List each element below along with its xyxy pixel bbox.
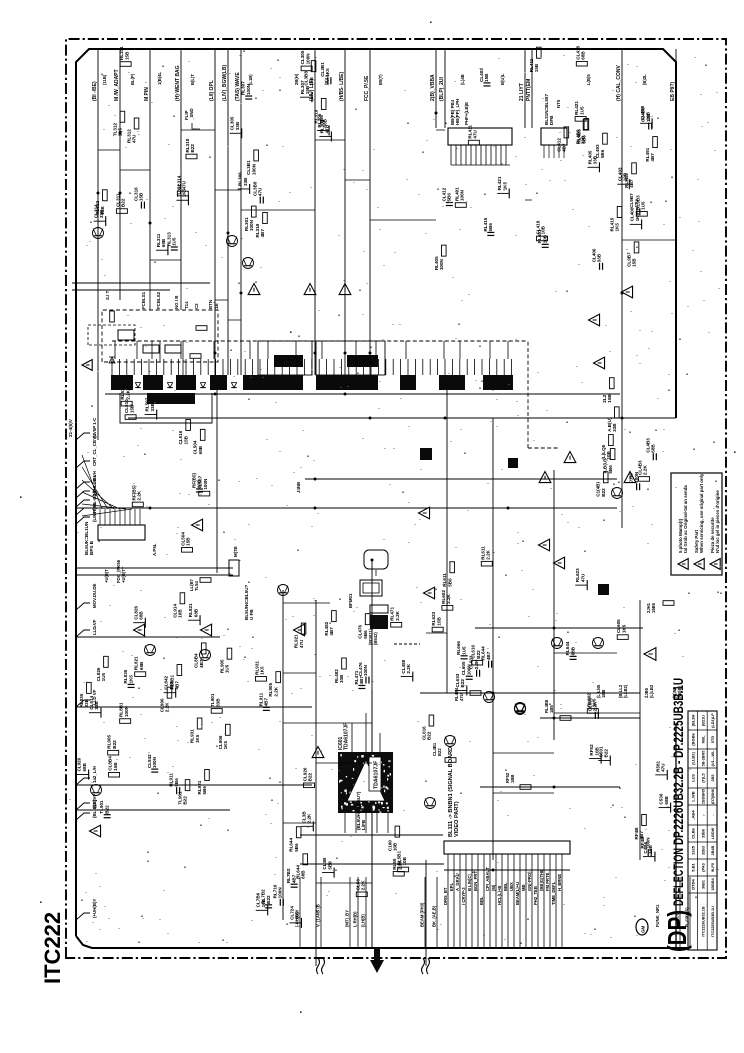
svg-text:2B4B: 2B4B [711,845,715,855]
connector black bar 4 [210,375,227,390]
module IC body 3 [165,345,181,353]
svg-text:4B7: 4B7 [562,143,567,152]
safety triangle mark 18 [539,539,550,551]
resistor RL611 [481,561,492,566]
svg-text:68B: 68B [581,51,586,60]
connector black bar 9 [483,375,513,390]
wire p-x283 drop [282,590,284,920]
safety notes box [671,473,722,575]
svg-text:NBL: NBL [701,735,705,743]
safety note triangle 3 [710,559,720,570]
connector black bar 2 [143,375,163,390]
resistor RL405 [441,245,446,256]
resistor RF4B [642,814,647,825]
svg-text:TDA6107JF: TDA6107JF [344,723,350,750]
part CL403 [617,183,629,185]
svg-text:(L)4B: (L)4B [460,74,465,85]
svg-text:GM: GM [641,925,646,933]
svg-text:10B: 10B [541,225,546,234]
capacitor RL7B2 [291,886,298,888]
wire net M /W_ADAPT [119,49,121,300]
safety note triangle 2 [694,559,704,570]
svg-text:(BLP)_2UI: (BLP)_2UI [439,76,445,101]
svg-text:DTD4: DTD4 [691,879,696,890]
diode D2 in bar row [167,383,172,388]
svg-text:100N: 100N [363,664,368,676]
part CL7B6 [256,909,268,911]
resistor C160 [395,826,400,837]
part RL311 [156,249,168,251]
connector BL31N body [541,128,567,145]
svg-text:4B7: 4B7 [264,697,269,706]
safety triangle mark 6 [201,624,212,636]
connector BB(PB) body [448,128,512,145]
part RL301 [319,135,331,137]
resistor RL318 [186,154,197,159]
svg-text:4B7: 4B7 [291,874,296,883]
resistor RF(B5) [132,502,143,507]
svg-text:LBDW: LBDW [711,827,715,839]
transistor Q2 [593,638,604,649]
IC U601 part label box [369,757,381,791]
wire p-y637 [76,636,220,638]
safety triangle mark 14 [90,825,101,837]
svg-text:H_BRNE: H_BRNE [557,874,562,891]
border stub (LE)VF [76,803,90,810]
svg-text:1U5: 1U5 [225,664,230,673]
svg-text:1U5: 1U5 [641,201,646,210]
svg-text:BL(P): BL(P) [130,73,135,85]
svg-text:(11B): (11B) [102,74,107,85]
svg-text:M(7B: M(7B [233,546,238,557]
connector BL111 pin lines [447,854,449,947]
svg-text:BK_(AE,B): BK_(AE,B) [432,905,437,927]
svg-text:MOV.DU.DE: MOV.DU.DE [92,583,97,608]
resistor RL415 [617,206,622,217]
svg-text:68B: 68B [82,762,87,771]
svg-text:(L/I) OPL: (L/I) OPL [209,80,215,101]
svg-text:1BBB4: 1BBB4 [711,877,715,890]
resistor CL914 [180,593,185,604]
capacitor CL412 [446,205,453,207]
svg-text:15B: 15B [648,844,653,853]
resistor RL4B5 [584,119,589,130]
resistor RL491 [653,137,658,148]
resistor RL921 [301,623,306,634]
resistor RL319 [321,98,326,109]
inline resistor row bottom-right [470,691,481,696]
connector black bar 7 [400,375,416,390]
svg-text:100N: 100N [251,163,256,175]
svg-text:1K5: 1K5 [502,182,507,191]
svg-text:,AB4: ,AB4 [691,810,696,820]
svg-text:33B: 33B [84,698,89,707]
capacitor CL842 [151,771,158,773]
bus wire p-x372 long drop [371,560,373,948]
connector black bar 6 [316,375,378,390]
wire net (H) WENT BAG [180,49,182,282]
border stub P/BN [76,508,90,515]
svg-text:68B: 68B [664,795,669,804]
part RL307 [300,96,312,98]
svg-text:10B: 10B [542,234,547,243]
safety triangle mark 17 [594,357,605,369]
driver BFM01 box [360,580,382,596]
svg-text:9LP5: 9LP5 [711,863,715,872]
svg-text:1B5: 1B5 [549,705,554,713]
capacitor CL476 [365,677,367,684]
svg-text:(BGB6: (BGB6 [691,733,696,746]
resistor RL8B1 [177,665,182,676]
svg-text:(D7)BN6: (D7)BN6 [711,789,715,804]
IC U601 pin wires [344,813,346,833]
svg-text:(M): (M) [491,884,496,891]
svg-text:1K5: 1K5 [182,188,187,197]
svg-text:EB P9?): EB P9?) [670,81,676,101]
svg-text:FCC_P/.5E: FCC_P/.5E [364,75,370,101]
part RF52 [589,758,601,760]
part CL842 [164,692,176,694]
svg-text:10B: 10B [339,674,344,683]
transistor QB1 [515,704,526,715]
svg-text:HB(PP)_LPH: HB(PP)_LPH [455,99,460,125]
svg-text:DP.2226UB32.2B - DP.2225UB3B.1: DP.2226UB32.2B - DP.2225UB3B.1U [671,678,686,845]
wire p-x316 drop [315,600,317,966]
capacitor RL313 [171,249,178,251]
svg-text:1a2_L/H: 1a2_L/H [92,766,97,783]
svg-text:68B: 68B [139,611,144,620]
svg-text:5B6: 5B6 [294,843,299,852]
svg-text:100N: 100N [305,53,310,65]
svg-text:100N: 100N [277,887,282,899]
resistor RL421 [575,117,586,122]
svg-text:MB: MB [521,884,526,891]
svg-text:33B: 33B [243,177,248,186]
capacitor CL4B3 [652,453,654,460]
svg-text:UBX: UBX [509,882,514,891]
resistor RL5B1 [398,867,409,872]
svg-text:DFB: DFB [549,115,554,125]
small scan speckles [300,1011,302,1013]
border stub (LIMIT)+ [76,517,90,524]
svg-text:5B6: 5B6 [488,223,493,232]
squiggle symbol 1 [317,958,325,974]
svg-text:4B7: 4B7 [629,179,634,188]
svg-text:15B: 15B [186,537,191,546]
svg-text:FUNK_NR1: FUNK_NR1 [655,904,660,927]
resistor RL835 [87,682,92,693]
safety triangle mark 2 [304,284,316,295]
border stub 2(P K-/-BL [76,491,90,498]
part RL306 [238,188,250,190]
transistor Q6 [243,258,254,269]
part CL3B [301,825,313,827]
amplifier triangle mid-right [644,648,656,661]
svg-text:BEAM(L)+U: BEAM(L)+U [515,882,520,905]
module diode [109,357,115,363]
resistor CL3B8 [311,61,316,72]
resistor RL9B3 [632,163,637,174]
svg-text:5B6: 5B6 [582,135,587,144]
connector black bar 8 [439,375,465,390]
svg-text:(H) WENT BAG: (H) WENT BAG [175,65,181,101]
connector black bar 1 [111,375,133,390]
resistor CL926 [303,783,314,788]
svg-text:5B6: 5B6 [327,861,332,870]
stub feed wires [82,455,132,516]
bus wire p-y418 [128,417,676,419]
svg-text:47U: 47U [473,129,478,138]
module rail p-y283 [72,282,210,284]
resistor CL510 [125,415,136,420]
svg-text:(LD1)LP: (LD1)LP [711,713,715,728]
svg-text:B22: B22 [121,198,126,207]
svg-text:LLD VF: LLD VF [92,619,97,635]
resistor RL9B3 [636,212,647,217]
safety triangle mark 5 [134,624,145,636]
resistor RL312 [103,190,108,201]
svg-text:15B: 15B [484,73,489,82]
resistor C1(4B) [603,472,608,483]
svg-text:N'ul loc gel in pieces d'origi: N'ul loc gel in pieces d'origine [715,490,720,553]
capacitor CL403 [483,85,490,87]
lower bar loop wire [120,393,212,423]
svg-text:CRT_CL_CBYU: CRT_CL_CBYU [92,434,97,466]
safety triangle mark 19 [554,557,565,569]
capacitor RL911 [263,709,270,711]
resistor RL931 [197,718,202,729]
svg-text:15B: 15B [183,435,188,444]
svg-text:2.2K: 2.2K [395,610,400,620]
svg-text:(LLB2): (LLB2) [623,684,628,698]
svg-text:B22: B22 [601,488,606,497]
branch wires upper half [98,130,676,320]
resistor TL901 [211,709,222,714]
svg-text:1U5: 1U5 [172,237,177,246]
svg-text:(LH(B): (LH(B) [361,914,366,927]
diode D4 in bar row [231,383,236,388]
resistor RL644 [296,827,301,838]
part CL488 [401,676,413,678]
transistor Q7 [612,488,623,499]
border stub (+UH(B)Y [76,913,90,920]
resistor RL301 [251,206,256,217]
capacitor CL605 [466,678,473,680]
svg-text:1325: 1325 [691,845,696,855]
wire p-x372 drop to arrow [371,690,373,948]
svg-text:VIDEO PART): VIDEO PART) [454,801,460,837]
wire net (BLP)_2UI [444,49,446,128]
resistor TL312 [120,111,125,122]
svg-text:TL54: TL54 [194,581,199,591]
svg-text:BEAM (PH3): BEAM (PH3) [420,902,425,927]
upper black bar B [347,355,378,367]
resistor CL616 [472,660,483,665]
svg-text:33B: 33B [235,121,240,130]
svg-text:100N: 100N [246,83,251,95]
svg-text:BTN: BTN [208,300,213,309]
svg-text:21-4(5)V: 21-4(5)V [68,418,73,437]
wire net (BI -/BE) [97,49,99,440]
schematic sheet border [76,49,676,936]
junction dots on top rails [97,192,100,195]
svg-text:VM_CL: VM_CL [675,912,680,927]
svg-text:S.I T: S.I T [105,290,110,300]
svg-text:2.2K: 2.2K [474,659,479,669]
svg-text:(T)L5: (T)L5 [701,773,705,782]
svg-text:B22: B22 [104,805,109,814]
svg-text:PNTT(EM: PNTT(EM [526,79,532,101]
part C591 [598,759,610,761]
svg-text:(LLB2): (LLB2) [691,752,696,765]
svg-text:68B: 68B [651,444,656,453]
resistor RL59 [393,871,404,876]
svg-text:CLB6: CLB6 [691,828,696,839]
svg-text:(BB)G(THE: (BB)G(THE [539,869,544,891]
wire net EB P9?) [675,49,677,418]
wire p-y785 [76,784,312,786]
resistor RL905 [276,672,281,683]
svg-text:(U1---WL: (U1---WL [711,750,715,766]
wire p-y810 [76,809,230,811]
svg-text:2.2K: 2.2K [307,813,312,823]
resistor RL319 [263,212,268,223]
box M(7B) [229,560,239,576]
part CL305 [230,132,242,134]
transistor Q12 [200,650,211,661]
svg-text:15B: 15B [534,63,539,72]
safety triangle mark 7 [294,624,305,636]
svg-text:(B21U: (B21U [701,715,705,726]
resistor CL8B4 [109,772,120,777]
svg-text:1K5: 1K5 [195,734,200,743]
safety triangle mark 11 [624,472,636,483]
svg-text:68B: 68B [300,870,305,879]
svg-text:When servicing, use original p: When servicing, use original part only [699,473,704,553]
svg-text:(LIMIT)+: (LIMIT)+ [92,505,97,522]
svg-text:B22: B22 [603,749,608,758]
wire net (L/V)_BGW(LB) [227,49,229,375]
capacitor RL644 [570,658,577,660]
wire p-x493 [492,418,494,860]
border stub LLD VF [76,630,90,637]
scan noise dots [70,55,720,943]
capacitor CL3B8 [259,197,261,204]
svg-text:2.2K: 2.2K [136,490,141,500]
wire p-y628 mid [475,627,643,629]
svg-text:47U: 47U [132,134,137,143]
wire net (L/I) OPL [214,49,216,375]
safety triangle mark 15 [419,507,430,519]
resistor CL906 [167,687,172,698]
svg-text:10B: 10B [402,856,407,865]
svg-text:J4NB: J4NB [296,482,301,493]
capacitor RL471 [358,687,365,689]
svg-text:1U5: 1U5 [101,672,106,681]
transformer BL4B2 winding box [370,605,388,613]
resistor RL8B1 [120,719,131,724]
svg-text:5B-2BN5: 5B-2BN5 [701,751,705,767]
svg-text:(H) CAL_CONV: (H) CAL_CONV [616,65,622,101]
bus wire p-y479 [305,478,617,480]
svg-text:33B: 33B [150,402,155,411]
part CL926 [77,774,89,776]
part RL405 [587,166,599,168]
svg-text:47U: 47U [660,763,665,772]
border stub LLD VH [76,482,90,489]
safety triangle mark 8 [192,519,203,531]
resistor TL901 [185,780,190,791]
capacitor J.N6 [636,483,638,490]
off-page arrow [370,948,384,973]
part C536 [659,807,671,809]
capacitor CL406 [599,263,601,270]
svg-text:2.2K: 2.2K [360,880,365,890]
svg-text:100N: 100N [152,756,157,768]
svg-text:47U: 47U [634,199,639,208]
svg-text:C2: C2 [194,303,199,309]
svg-text:10B: 10B [393,842,398,851]
svg-text:100N: 100N [439,258,444,270]
resistor RL623 [432,627,443,632]
resistor CL4B3 [639,477,650,482]
resistor CL314 [177,191,188,196]
svg-text:1K5: 1K5 [621,624,626,633]
resistor 2L2 [609,378,614,389]
resistor CL311 [116,209,127,214]
dashed rail corner drop p-x528 [527,341,529,448]
resistor RL905 [108,750,119,755]
svg-text:(PA3: (PA3 [701,863,705,871]
svg-text:100N: 100N [459,189,464,201]
part CL4B8 [640,122,652,124]
safety note triangle 1 [678,559,688,570]
svg-text:U FB: U FB [249,609,254,620]
capacitor RL401 [542,246,549,248]
svg-text:15B: 15B [113,762,118,771]
resistor RL602 [587,709,598,714]
svg-text:ITC2226UB32.1B: ITC2226UB32.1B [701,906,705,936]
svg-text:2.2K: 2.2K [485,549,490,559]
resistor CL412 [564,127,569,138]
safety triangle mark 10 [564,452,576,463]
svg-text:15B5: 15B5 [651,602,656,613]
wire net (H) CAL_CONV [621,49,623,528]
svg-text:15B: 15B [309,77,314,86]
connector pin risers to dashed rail [115,341,508,359]
wire p-y718 [540,717,640,719]
svg-text:BBL: BBL [503,882,508,891]
wire net (LIU) L(F) [314,49,316,375]
border stub IL-B(H)+ [76,500,90,507]
dark component blob [598,584,609,595]
safety triangle mark 1 [248,284,260,295]
resistor RL611 [450,562,455,573]
svg-text:47U: 47U [257,187,262,196]
lower black bar [147,393,195,404]
svg-text:BGN_PRT: BGN_PRT [473,871,478,891]
svg-text:1U5: 1U5 [579,106,584,115]
svg-text:2.2K: 2.2K [643,465,648,475]
bus wire p-y575 [76,574,233,576]
svg-text:10B: 10B [645,111,650,120]
svg-text:NG I B: NG I B [174,296,179,309]
capacitor CL9B7 [636,208,638,215]
svg-text:FCBLS1: FCBLS1 [141,291,146,309]
svg-text:1BDBN5: 1BDBN5 [701,789,705,804]
part RL623 [575,584,587,586]
resistor CL3B1 [254,150,259,161]
